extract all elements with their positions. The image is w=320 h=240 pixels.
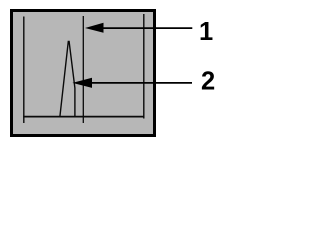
svg-text:2: 2 (201, 68, 215, 96)
svg-text:1: 1 (199, 18, 213, 46)
